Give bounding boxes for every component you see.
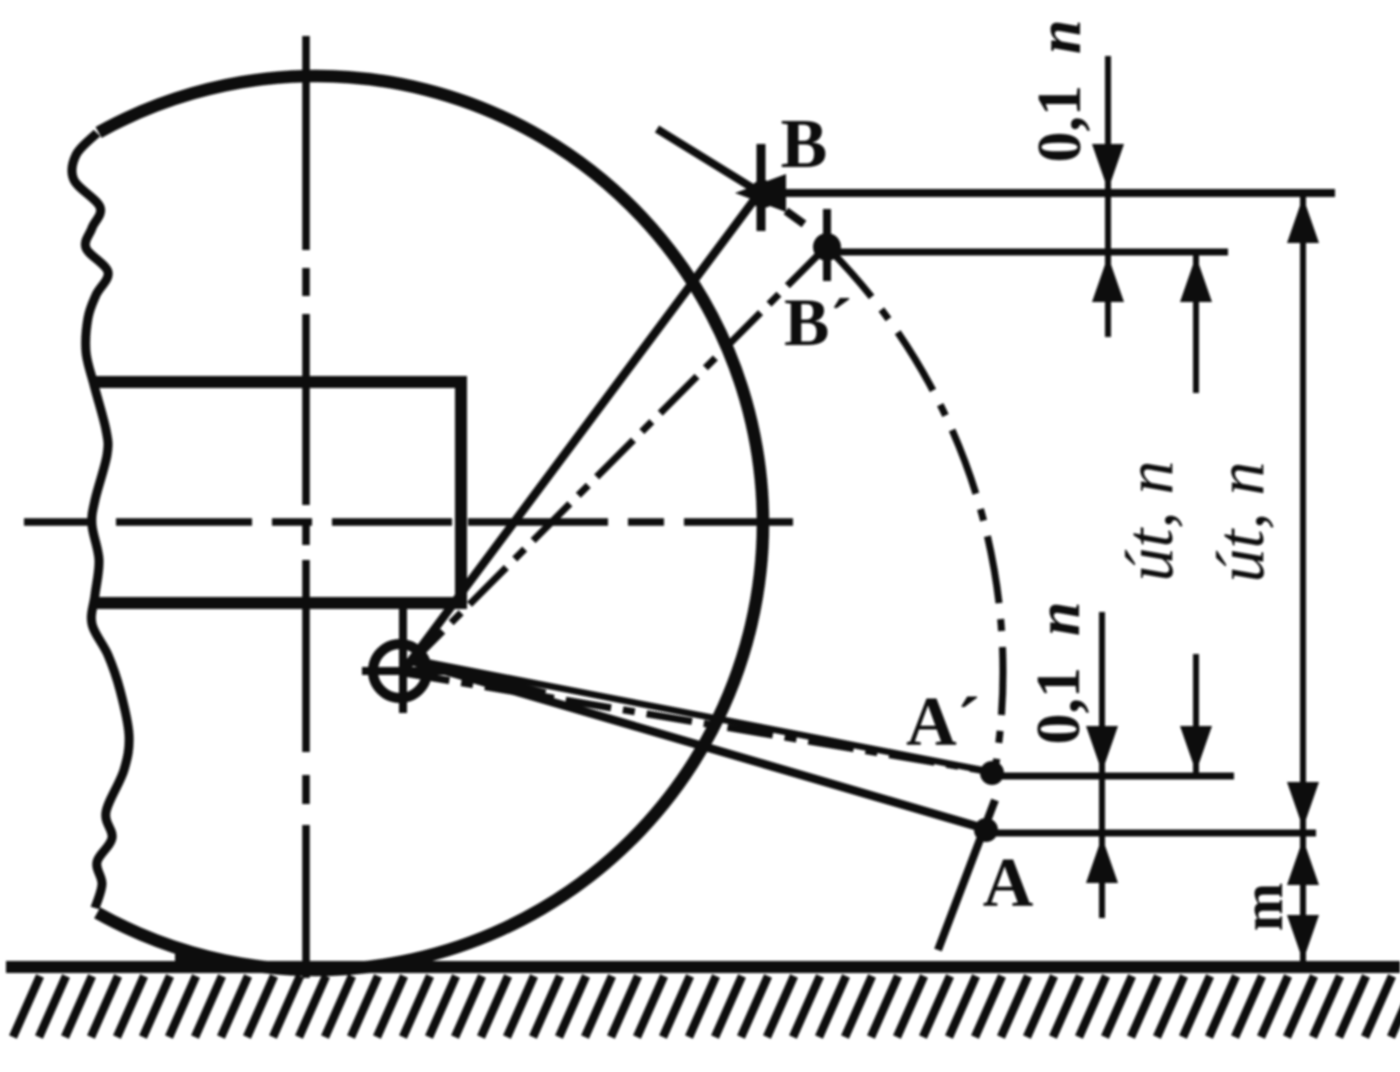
pivot link line down from hub — [399, 609, 407, 713]
lever arm solid line pivot to B — [404, 192, 760, 670]
B' point dot — [813, 233, 841, 261]
tip end-face stroke at B — [657, 129, 772, 200]
arrow up to B' line (ut,n) — [1180, 256, 1212, 302]
lever arm solid line pivot to A — [412, 661, 986, 829]
lever centerline pivot to A' (dash-dot) — [404, 673, 992, 772]
svg-text:0,1 n: 0,1 n — [1025, 602, 1093, 745]
B point dot — [749, 180, 777, 208]
arrow up to B' line — [1092, 256, 1124, 302]
arrow down to A' line (ut,n) — [1180, 726, 1212, 772]
dimension line ut,n shaft upper — [1193, 255, 1199, 393]
hub rectangle (shaft) — [92, 382, 461, 603]
arrowhead at B on measuring line — [735, 174, 786, 212]
arrow down to ground (m) — [1287, 915, 1319, 961]
dimension line 0,1n top shaft — [1105, 56, 1111, 337]
lever edge line pivot to A' — [410, 659, 992, 772]
svg-text:B: B — [781, 106, 828, 183]
pivot circle — [373, 644, 427, 698]
arrow down to B line — [1092, 144, 1124, 190]
dimension line 0,1n bottom shaft — [1099, 612, 1105, 918]
svg-text:m: m — [1230, 883, 1295, 931]
measuring line at A — [986, 830, 1316, 837]
dimension line ut,n shaft lower — [1193, 654, 1199, 776]
dimension line B-A / m shaft — [1300, 196, 1306, 963]
A point dot — [974, 818, 998, 842]
ground line — [6, 961, 1400, 973]
svg-text:út, n: út, n — [1202, 462, 1278, 583]
svg-text:A´: A´ — [906, 684, 980, 761]
trajectory arc of lever tip from B' to A' (dash-dot) — [826, 246, 1003, 772]
svg-text:B´: B´ — [784, 284, 852, 360]
arrow down to A' line (0,1n) — [1086, 726, 1118, 772]
horizontal centerline of wheel — [24, 518, 793, 526]
svg-text:út, n: út, n — [1111, 461, 1187, 582]
tip end-face stroke at A — [938, 800, 995, 950]
arrow down to A line (tall line) — [1287, 782, 1319, 828]
arrow up to B line (tall line) — [1287, 197, 1319, 243]
tip end-face dash beyond B — [786, 211, 804, 224]
measuring line at A' — [992, 773, 1234, 780]
lever centerline pivot to B' (dash-dot) — [406, 246, 827, 668]
break (wavy) line on wheel left side — [72, 133, 129, 908]
svg-text:A: A — [983, 845, 1034, 922]
measuring line at B — [760, 189, 1335, 197]
arrow up to A line from below (m) — [1287, 839, 1319, 885]
wheel/ground contact merge — [175, 946, 420, 971]
vertical tick at B' — [823, 209, 831, 281]
arrow up to A line (0,1n) — [1086, 837, 1118, 883]
ground hatching — [13, 976, 1400, 1037]
vertical centerline of wheel — [302, 36, 310, 978]
thick lever root segment toward A — [424, 664, 545, 695]
pivot horizontal crosshair — [362, 667, 458, 675]
A' point dot — [980, 761, 1004, 785]
measuring line at B' — [827, 249, 1228, 256]
vertical tick at B — [757, 144, 766, 231]
svg-text:0,1 n: 0,1 n — [1026, 20, 1094, 163]
wheel rim (grinding wheel outline) — [97, 76, 763, 970]
